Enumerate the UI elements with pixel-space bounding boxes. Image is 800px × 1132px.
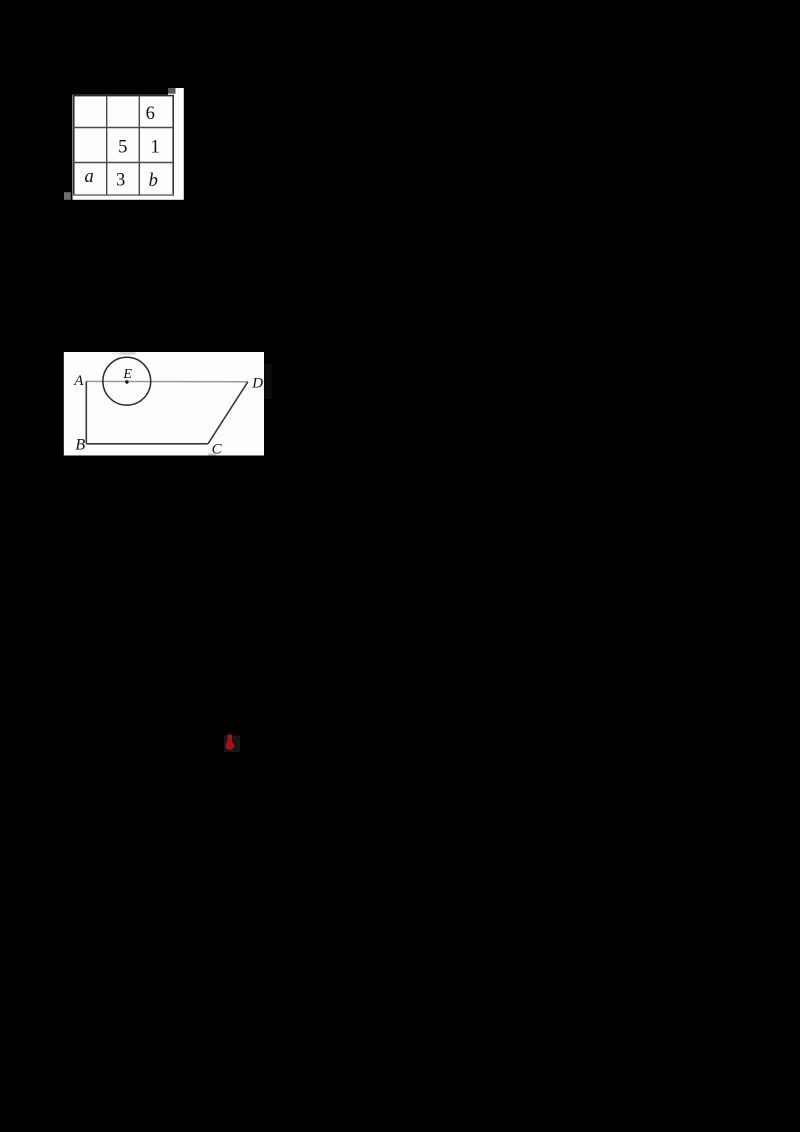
- figure 1: table inner grid lines: [73, 96, 173, 196]
- svg-text:b: b: [149, 171, 158, 191]
- svg-text:E: E: [122, 367, 132, 382]
- figure 2: side AB: [85, 381, 87, 443]
- figure 1: black scan strip along top-left of image: [72, 88, 168, 95]
- svg-text:A: A: [73, 373, 84, 389]
- figure 2: side BC: [86, 443, 208, 445]
- figure 2: side AD (gray): [86, 380, 248, 382]
- figure 1: selection handle bottom-left: [64, 192, 71, 200]
- svg-text:B: B: [75, 436, 85, 453]
- figure 1: magic-square image white background: [73, 88, 184, 200]
- red annotation mark: dark square backdrop: [224, 736, 240, 753]
- figure 1: selection handle top-right: [168, 88, 176, 94]
- svg-text:3: 3: [116, 171, 125, 191]
- figure 2: selection handle top-middle (light): [112, 352, 120, 354]
- svg-text:C: C: [212, 441, 223, 457]
- figure 2: side CD: [208, 382, 248, 444]
- svg-text:a: a: [84, 167, 93, 187]
- figure 2: circle E: [103, 357, 151, 405]
- svg-text:6: 6: [146, 104, 155, 124]
- figure 2: faint edge artifact right of image: [264, 364, 272, 399]
- svg-text:5: 5: [118, 138, 127, 158]
- figure 2: center dot E: [125, 380, 128, 383]
- svg-text:D: D: [251, 375, 263, 391]
- figure 1: table bottom border: [73, 194, 174, 196]
- figure 1: table outer border: [73, 95, 174, 196]
- red annotation mark: red comma glyph: [226, 735, 235, 750]
- svg-text:1: 1: [150, 138, 159, 158]
- figure 2: trapezoid image white background: [64, 352, 264, 456]
- figure 2: selection handle bottom-middle: [208, 453, 216, 455]
